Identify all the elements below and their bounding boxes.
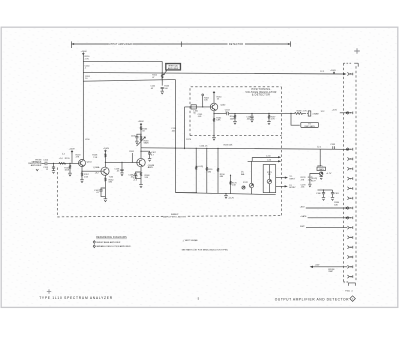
potentiometer R182 gain (320, 172, 332, 175)
connector J150 dashed columns (344, 63, 359, 282)
transistor Q164 (137, 158, 155, 169)
wire x162 vertical (161, 61, 163, 85)
svg-text:3: 3 (350, 169, 351, 171)
diamond page symbol (350, 296, 356, 302)
connector pin 5 (347, 187, 352, 190)
svg-text:2.7K: 2.7K (303, 111, 308, 113)
node junction input 1 (53, 163, 54, 164)
connector pin B (347, 111, 352, 114)
svg-text:REFERENCE DIAGRAMS: REFERENCE DIAGRAMS (96, 236, 127, 239)
svg-text:OUTPUT AMPLIFIER AND DETECTOR: OUTPUT AMPLIFIER AND DETECTOR (275, 297, 349, 301)
wire corner to bottom rail (176, 192, 198, 194)
wire arrow from vertical amplifier box (163, 71, 167, 76)
wire Q164 emitter chain (140, 167, 142, 172)
connector pin 1 (347, 148, 352, 151)
svg-text:+4.7V: +4.7V (326, 173, 332, 175)
wire line B long +300V distribution (83, 73, 344, 74)
svg-text:AMPL: AMPL (148, 166, 154, 169)
svg-text:+85V: +85V (300, 206, 305, 208)
svg-text:-12.2V: -12.2V (228, 198, 235, 200)
wire emitter to Q160 base (82, 170, 102, 172)
connector pin 9 (347, 226, 352, 229)
svg-text:7.5K: 7.5K (93, 157, 98, 159)
ground bottom rail (224, 193, 234, 200)
wire exit arrow 177 (276, 176, 296, 180)
connector stub J161 (307, 111, 319, 116)
capacitor C155 to ground (43, 163, 55, 173)
resistor R158A label (224, 145, 233, 147)
transistor Q160 detector (210, 103, 226, 111)
wire top rail (141, 148, 346, 150)
node junction Q154 emitter (81, 171, 82, 172)
svg-text:+4.5V: +4.5V (332, 110, 338, 112)
text resistor labels right block (301, 177, 314, 188)
node junction Q160 collector out (105, 162, 106, 163)
connector pin 8 (347, 216, 352, 219)
node junctions on top rail (175, 148, 231, 176)
svg-text:SEE PARTS LIST FOR SEMICONDUCT: SEE PARTS LIST FOR SEMICONDUCTOR TYPES. (182, 249, 229, 252)
svg-text:100K: 100K (65, 170, 70, 172)
resistor R163 top (140, 126, 148, 132)
inductor L160 box (191, 105, 199, 115)
connector pin 7 (347, 206, 352, 209)
resistor R168 emitter (140, 172, 150, 184)
wire to pin 210 (306, 207, 349, 209)
potentiometer R172 DC BAL (241, 161, 254, 194)
wire detector base (185, 107, 211, 149)
wire x175.5 long vertical supply (175, 80, 177, 193)
connector pin 2 (347, 157, 352, 160)
svg-text:SWP GATE: SWP GATE (304, 125, 315, 128)
connector pin 13 (347, 265, 352, 268)
text C159 label (171, 128, 177, 132)
node +100V bias arrow (69, 148, 82, 163)
limiter label (163, 213, 186, 218)
connector pin 10 (347, 236, 352, 239)
capacitor C163 series (225, 109, 231, 115)
node junction line C x162 (162, 79, 163, 80)
resistor R166 (230, 113, 237, 124)
capacitor C152 (150, 86, 163, 92)
svg-text:VERT: VERT (289, 178, 295, 180)
big dashed box limiter bottom edge (57, 216, 281, 217)
svg-text:Q164A: Q164A (93, 166, 100, 169)
gain switch box (263, 165, 276, 193)
vertical amplifier box U-VA (165, 63, 180, 70)
net label detector out (321, 110, 338, 113)
svg-text:+100V: +100V (69, 148, 76, 150)
svg-text:+50V: +50V (315, 264, 320, 266)
svg-text:14: 14 (350, 276, 352, 278)
svg-text:9: 9 (350, 227, 351, 229)
variable resistor R163 gain (137, 134, 150, 148)
svg-text:2: 2 (350, 159, 351, 161)
wire line C (83, 80, 175, 82)
resistor ladder R156 (217, 148, 225, 193)
svg-text:4.7K: 4.7K (271, 118, 276, 120)
wire Q164 collector (140, 148, 142, 159)
capacitor C162 bypass (94, 188, 105, 197)
capacitor C183 on rail (330, 144, 336, 149)
svg-text:GAIN: GAIN (319, 168, 324, 171)
connector bottom bracket P150 (345, 283, 355, 293)
connector pin 14 (347, 275, 352, 278)
resistor R151 (85, 76, 91, 80)
wire line mid right 157 (252, 155, 281, 161)
resistor ladder R159B (206, 148, 213, 193)
svg-text:TYPE 1L10 SPECTRUM ANALYZER: TYPE 1L10 SPECTRUM ANALYZER (39, 296, 113, 300)
TO box (301, 122, 319, 128)
node +300V var chain (138, 121, 145, 134)
svg-text:AMPLIFIER: AMPLIFIER (31, 164, 42, 167)
bracket OUTPUT AMPLIFIER / DETECTOR (72, 41, 291, 48)
resistor ladder R170 (230, 175, 238, 194)
wire to pin 219 (308, 217, 350, 219)
connector pin 12 (347, 255, 352, 258)
node junction input 2 (69, 163, 70, 164)
legend reference diagrams (93, 236, 131, 248)
wire gain pot left branch (308, 174, 319, 187)
connector pin 3 (347, 167, 352, 170)
svg-text:+100V: +100V (81, 51, 88, 53)
node junction output right (290, 113, 291, 114)
capacitor C150 (85, 65, 91, 69)
input text FROM RESOLUTION AMPLIFIER (28, 159, 42, 170)
gain boxed control label (317, 167, 326, 171)
svg-text:+GATE: +GATE (300, 215, 307, 218)
connector pin 6 (347, 197, 352, 200)
svg-text:13: 13 (350, 267, 352, 269)
wire bottom rail (176, 193, 276, 195)
wire detector emitter down (213, 111, 215, 138)
connector pin 4 (347, 177, 352, 180)
node junction detector output (213, 113, 214, 114)
node junction Q164 collector (140, 151, 141, 152)
svg-text:Q154: Q154 (87, 161, 93, 163)
svg-text:8: 8 (350, 218, 351, 220)
wire drop to TO box (291, 113, 300, 125)
svg-text:100K: 100K (230, 118, 235, 120)
svg-text:6.8K: 6.8K (216, 120, 221, 122)
svg-text:7: 7 (350, 208, 351, 210)
svg-text:5: 5 (350, 188, 351, 190)
connector pin A (347, 72, 352, 75)
svg-text:DETECTOR: DETECTOR (229, 43, 243, 46)
svg-text:SWEEP BASE AMPLIFIER: SWEEP BASE AMPLIFIER (96, 241, 121, 244)
wire arrow line B pin (320, 70, 346, 75)
resistor R157 emitter (80, 173, 89, 183)
wire detector output (214, 112, 291, 114)
wire Q160 collector to Q164 base (105, 161, 136, 163)
resistor R155 series (59, 158, 71, 164)
svg-text:& DETECTOR: & DETECTOR (252, 94, 270, 97)
svg-text:1.5K: 1.5K (84, 176, 89, 178)
detector box title (245, 88, 276, 96)
svg-text:4 SAW: 4 SAW (312, 113, 318, 116)
legend note right (182, 239, 229, 252)
text R180 label (334, 202, 340, 206)
svg-text:HORIZ: HORIZ (289, 187, 296, 189)
svg-text:12: 12 (350, 257, 352, 259)
svg-text:OUTPUT AMPLIFIER: OUTPUT AMPLIFIER (107, 43, 132, 46)
wire line A to vertical amplifier (83, 60, 162, 62)
test point TP160 (202, 94, 210, 107)
potentiometer R174 (242, 186, 245, 189)
wire cap row (318, 189, 333, 191)
resistor R167 (267, 113, 276, 125)
ground Q164 emitter (139, 185, 143, 188)
capacitor C181 (331, 190, 340, 200)
ground below C152 (161, 91, 164, 94)
transistor Q154 (79, 160, 93, 167)
svg-text:AMPLIFIER LIMITER: AMPLIFIER LIMITER (163, 215, 186, 218)
wire external +50V feed (310, 264, 348, 273)
resistor ladder R159 (196, 148, 204, 193)
wire input (42, 162, 79, 164)
wire x132 feedback (129, 151, 135, 163)
wire arrow into pin detector out (340, 112, 350, 114)
capacitor C164 (246, 113, 253, 122)
node +100V supply (81, 51, 88, 55)
svg-text:1.5K: 1.5K (232, 185, 237, 187)
svg-text:SWP: SWP (328, 271, 333, 273)
capacitor C165 left (131, 134, 141, 144)
svg-text:+100V: +100V (103, 148, 110, 150)
resistor R162 emitter (105, 177, 115, 199)
registration mark bottom left (47, 289, 51, 293)
svg-text:2.7K: 2.7K (85, 58, 90, 60)
svg-text:+300V: +300V (330, 70, 337, 72)
svg-text:SWP: SWP (300, 226, 305, 228)
resistor R150 (85, 56, 91, 60)
node junction line B x162 (162, 72, 163, 73)
svg-text:1: 1 (350, 149, 351, 151)
wire arrow top rail pin (346, 148, 349, 150)
capacitor C180 (316, 189, 325, 200)
svg-text:11: 11 (350, 247, 352, 249)
node +125V arrow detector collector (213, 92, 222, 104)
detector dashed box (190, 87, 282, 216)
wire Q160 emitter chain (104, 175, 106, 177)
svg-text:AMPLIFIER: AMPLIFIER (168, 67, 179, 70)
svg-text:△ VERT SIGNAL: △ VERT SIGNAL (183, 239, 199, 242)
capacitor C161 (198, 114, 204, 118)
node junction var chain (140, 134, 141, 135)
resistor R152 (152, 74, 163, 79)
big dashed box limiter left edge (56, 168, 58, 217)
registration mark top right (354, 48, 360, 54)
ground below gain pot (320, 175, 323, 179)
node junction detector base (202, 106, 203, 107)
node +100V Q160 collector (92, 148, 109, 168)
resistor R154 to ground (64, 163, 71, 176)
wire exit arrow 186 (276, 185, 297, 189)
svg-text:10: 10 (350, 237, 352, 239)
svg-text:[+0.45]: [+0.45] (197, 166, 204, 168)
wire to pin 228 (306, 227, 347, 229)
transistor Q160 (93, 166, 109, 175)
wire gain control stem (319, 149, 321, 166)
capacitor C158 (114, 162, 123, 176)
ground detector emitter (212, 137, 216, 140)
svg-text:VARIABLE RESOLUTION AMPLIFIER: VARIABLE RESOLUTION AMPLIFIER (96, 245, 131, 248)
svg-text:GAIN: GAIN (144, 142, 149, 145)
resistor R161 (213, 118, 222, 122)
svg-text:+300V: +300V (138, 121, 145, 123)
capacitor C168 bypass (128, 172, 141, 179)
svg-text:4: 4 (350, 178, 351, 180)
text R153 value (164, 86, 170, 90)
connector pin 11 (347, 246, 352, 249)
ground Q160 emitter (104, 199, 108, 202)
capacitor C154 series (43, 160, 49, 166)
capacitor C167 pickoff (141, 151, 157, 161)
wire Q154 emitter (81, 167, 83, 173)
text block R166 values (133, 175, 139, 181)
svg-text:6: 6 (350, 198, 351, 200)
wire line mid right 161 (248, 160, 282, 163)
wire +100V bus vertical (82, 54, 84, 159)
capacitor C156 label (199, 145, 208, 147)
